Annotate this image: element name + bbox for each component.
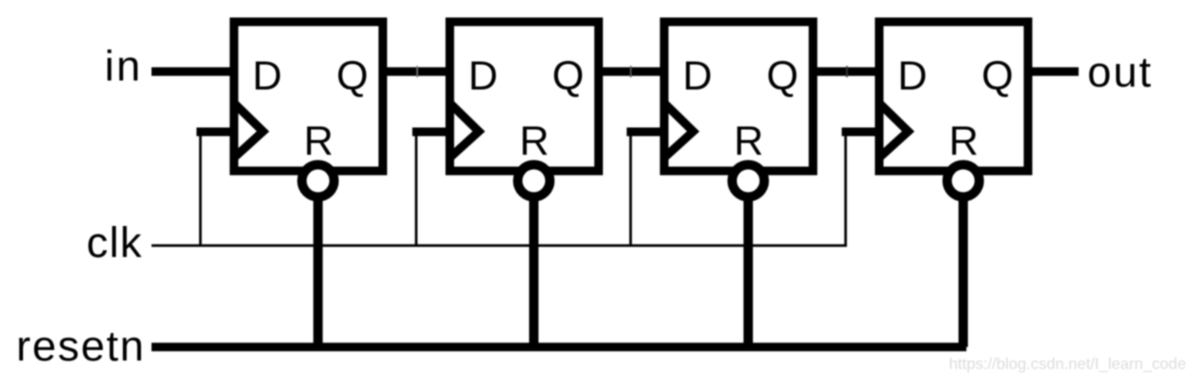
wire U3.Q to U4.D [811, 67, 881, 76]
flip-flop U4 clock edge triangle [880, 104, 908, 157]
wire clk stub U1 [197, 128, 237, 137]
svg-text:https://blog.csdn.net/I_learn_: https://blog.csdn.net/I_learn_code [949, 356, 1186, 373]
wire U4.Q to out [1026, 67, 1079, 76]
svg-text:in: in [105, 43, 143, 91]
svg-text:Q: Q [982, 52, 1014, 98]
wire U1.Q to U2.D [381, 67, 452, 76]
flip-flop U2 active-low reset bubble [518, 165, 550, 197]
wire clk riser to U1 [199, 132, 202, 246]
svg-text:clk: clk [87, 219, 143, 267]
svg-text:D: D [468, 52, 498, 98]
svg-text:R: R [304, 118, 334, 164]
svg-text:D: D [898, 52, 928, 98]
wire clk riser to U3 [629, 132, 632, 246]
wire seam between U1 and U2 [416, 66, 418, 77]
svg-text:R: R [734, 118, 764, 164]
svg-text:D: D [683, 52, 713, 98]
flip-flop U3 active-low reset bubble [732, 165, 764, 197]
wire in to U1.D [152, 67, 237, 76]
flip-flop U1 box [234, 22, 383, 171]
flip-flop U2 clock edge triangle [451, 104, 479, 157]
wire clk rail [152, 244, 847, 247]
flip-flop U4 box [879, 22, 1028, 171]
wire clk stub U2 [412, 128, 452, 137]
svg-text:Q: Q [767, 52, 799, 98]
flip-flop U2 box [450, 22, 599, 171]
wire resetn drop U3 [744, 181, 753, 347]
wire seam between U2 and U3 [630, 66, 632, 77]
wire clk stub U4 [842, 128, 882, 137]
svg-text:out: out [1087, 49, 1152, 97]
wire resetn drop U2 [529, 181, 538, 347]
svg-text:Q: Q [336, 52, 368, 98]
svg-text:resetn: resetn [16, 323, 145, 371]
wire clk stub U3 [627, 128, 667, 137]
wire resetn drop U4 [959, 181, 968, 347]
svg-text:R: R [519, 118, 549, 164]
wire resetn drop U1 [313, 181, 322, 347]
wire U2.Q to U3.D [597, 67, 667, 76]
flip-flop U4 active-low reset bubble [947, 165, 979, 197]
svg-text:Q: Q [552, 52, 584, 98]
flip-flop U3 box [664, 22, 813, 171]
wire clk riser to U2 [415, 132, 418, 246]
flip-flop U1 active-low reset bubble [302, 165, 334, 197]
svg-text:D: D [252, 52, 282, 98]
svg-text:R: R [949, 118, 979, 164]
wire resetn rail [152, 343, 967, 352]
flip-flop U3 clock edge triangle [665, 104, 693, 157]
flip-flop U1 clock edge triangle [235, 104, 263, 157]
wire seam between U3 and U4 [846, 66, 848, 77]
wire clk riser to U4 [844, 132, 847, 246]
